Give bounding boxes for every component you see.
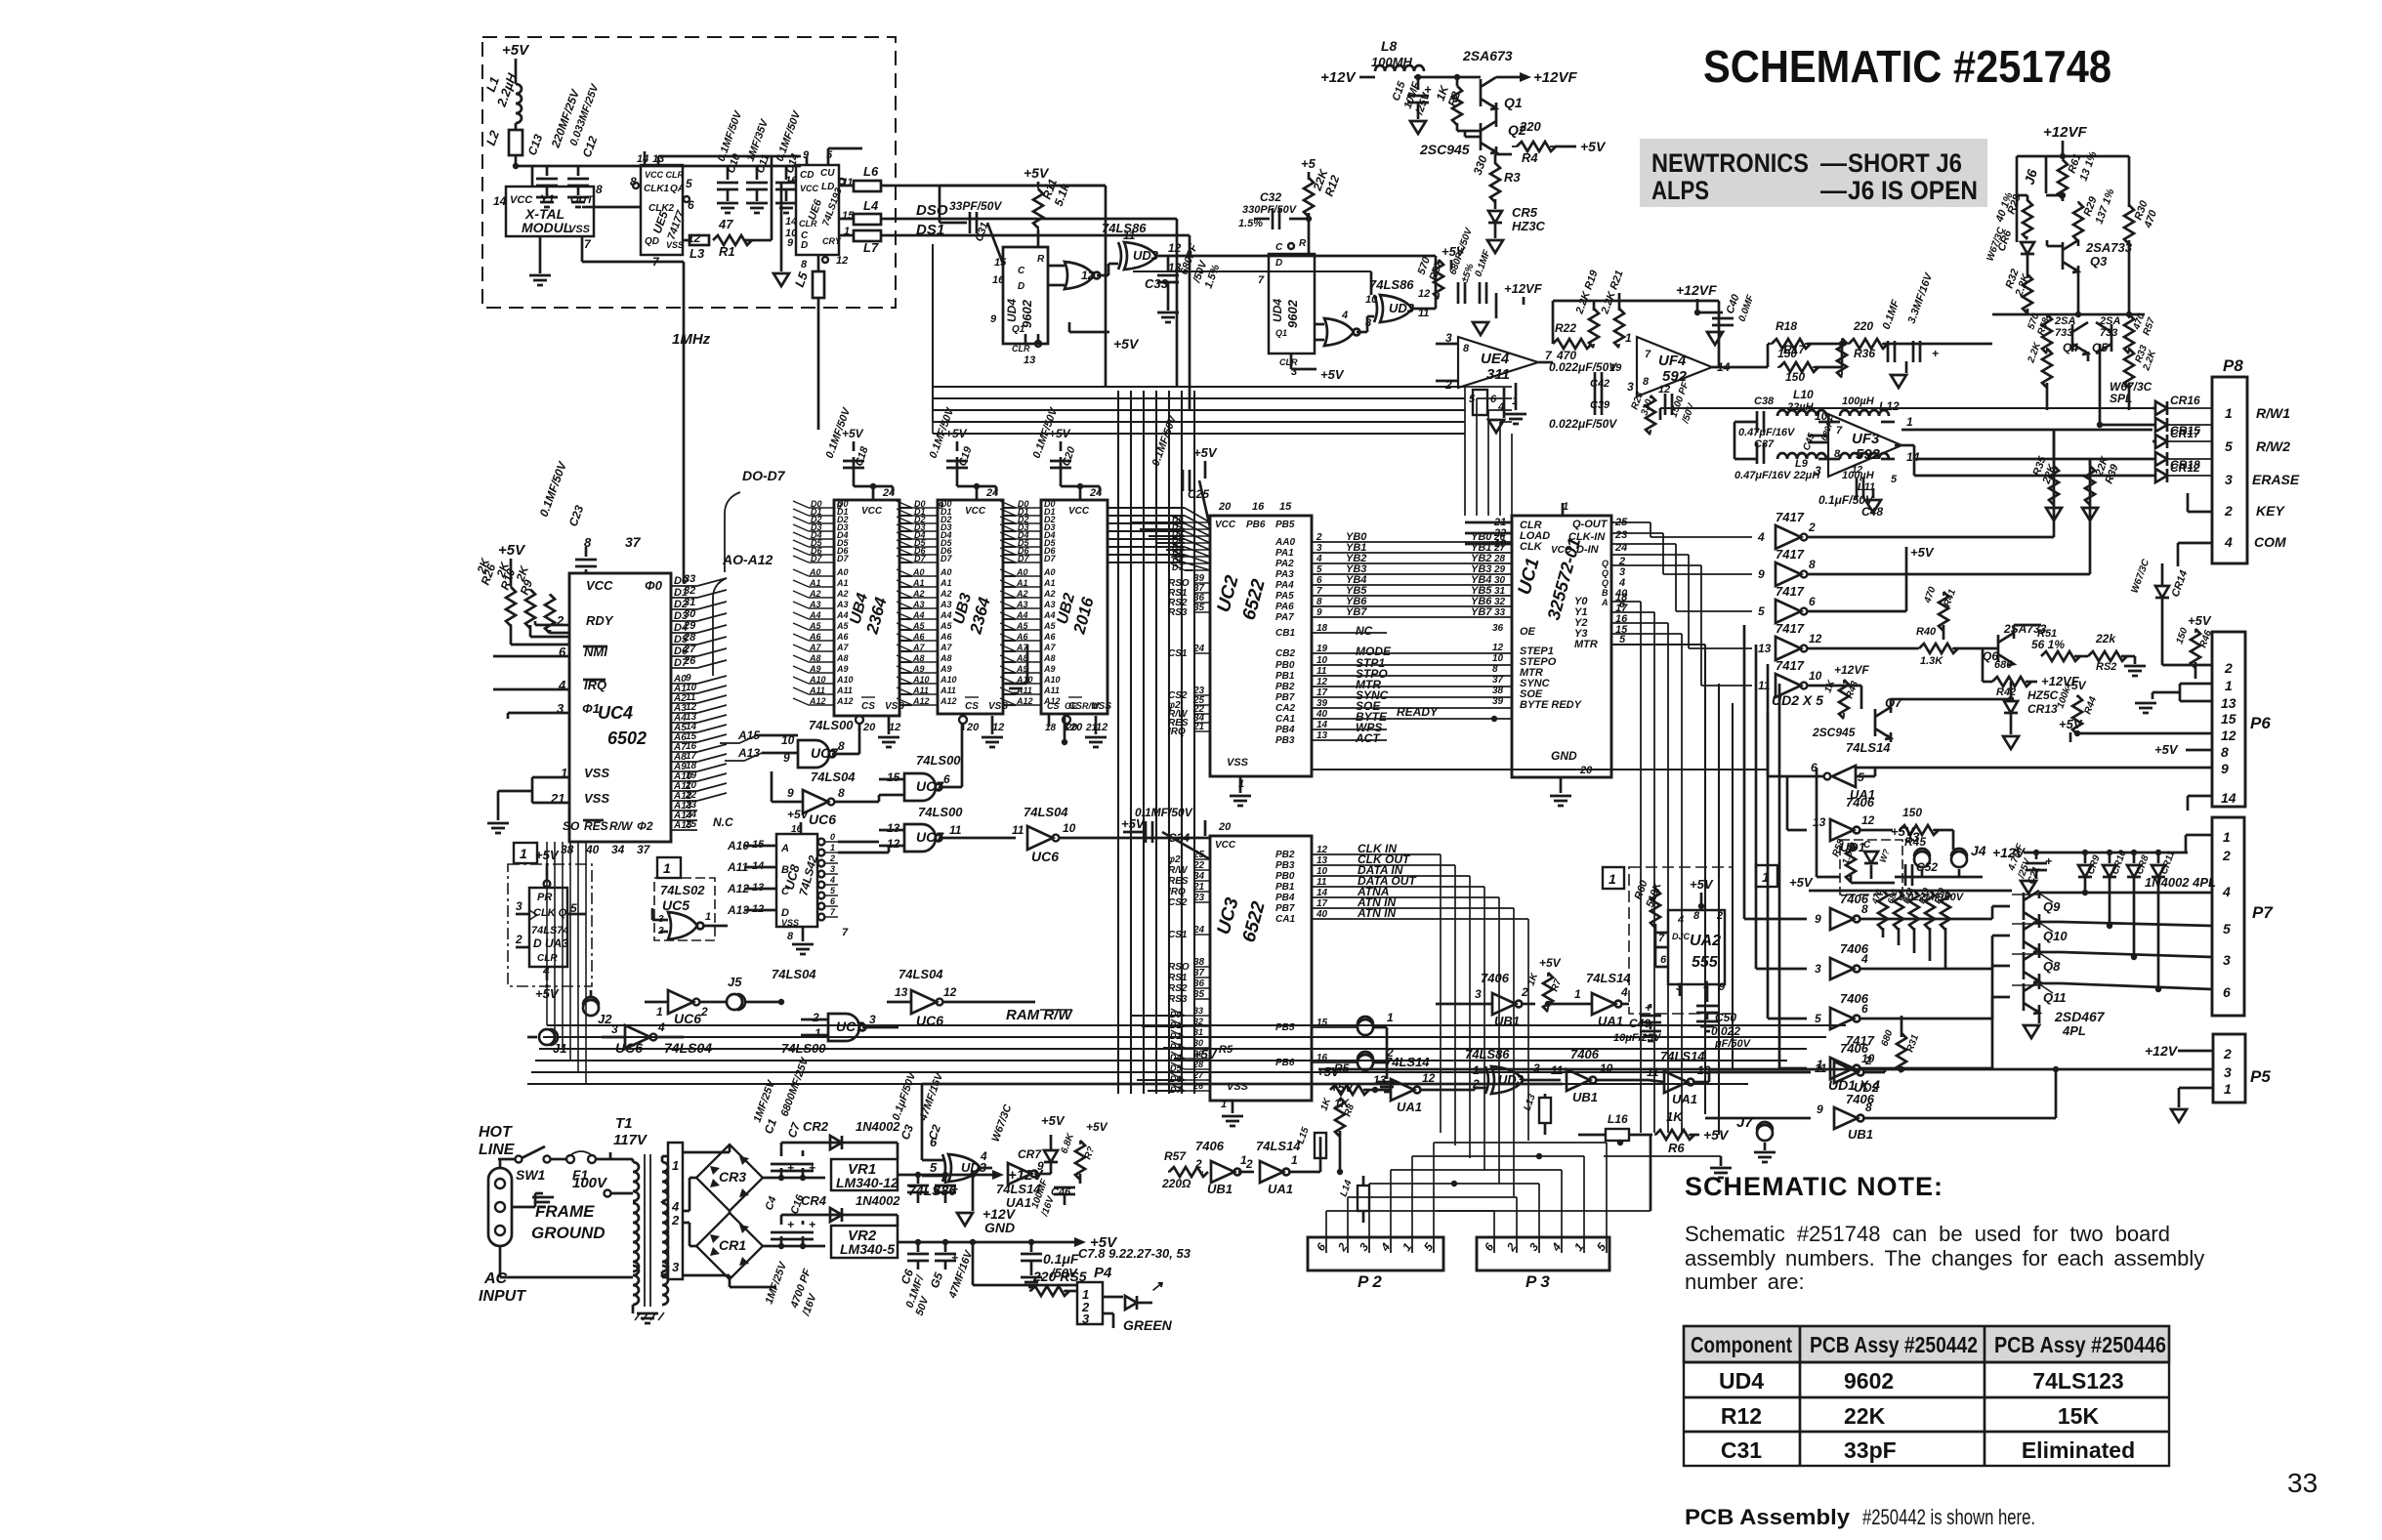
svg-text:7: 7	[1645, 349, 1651, 360]
svg-text:PA2: PA2	[1275, 559, 1294, 569]
svg-text:A0: A0	[1043, 567, 1056, 577]
svg-text:L10: L10	[1793, 388, 1814, 401]
svg-text:0.47μF/16V 22μH: 0.47μF/16V 22μH	[1734, 470, 1820, 481]
svg-text:+5V: +5V	[1789, 875, 1814, 890]
svg-text:+: +	[787, 1218, 794, 1231]
svg-text:R/W: R/W	[1168, 865, 1189, 876]
svg-text:8: 8	[1865, 1101, 1872, 1114]
svg-text:J5: J5	[728, 975, 742, 989]
svg-text:18: 18	[1045, 723, 1057, 733]
svg-text:74LS04: 74LS04	[664, 1040, 712, 1056]
svg-text:7: 7	[1258, 274, 1265, 286]
svg-text:N.C: N.C	[713, 815, 733, 829]
svg-text:2SD467: 2SD467	[2054, 1009, 2106, 1024]
svg-text:7417: 7417	[1776, 584, 1805, 599]
svg-text:10μF/25V: 10μF/25V	[1613, 1032, 1662, 1044]
svg-text:+12V: +12V	[1320, 69, 1357, 86]
svg-text:555: 555	[1692, 954, 1719, 971]
svg-text:C38: C38	[1754, 395, 1775, 407]
svg-text:9: 9	[1815, 912, 1821, 926]
svg-text:220 RS5: 220 RS5	[1032, 1269, 1087, 1284]
svg-text:22k: 22k	[2095, 632, 2116, 645]
svg-text:1.3K: 1.3K	[1920, 655, 1943, 667]
svg-text:A8: A8	[912, 653, 925, 663]
svg-text:2: 2	[2224, 660, 2233, 676]
svg-text:13: 13	[895, 985, 908, 999]
svg-text:Q8: Q8	[2043, 959, 2061, 974]
svg-text:AC: AC	[483, 1270, 508, 1287]
svg-text:B: B	[1602, 588, 1609, 598]
svg-text:A2: A2	[912, 589, 925, 599]
svg-text:P 2: P 2	[1358, 1272, 1382, 1291]
svg-text:A11: A11	[809, 686, 825, 695]
svg-text:2: 2	[1864, 1054, 1872, 1067]
svg-text:37: 37	[637, 843, 651, 856]
svg-text:R57: R57	[1164, 1149, 1187, 1163]
svg-text:74LS74: 74LS74	[531, 925, 569, 936]
svg-text:PB2: PB2	[1275, 682, 1295, 692]
svg-text:J7: J7	[1736, 1114, 1753, 1131]
svg-text:A7: A7	[912, 643, 925, 652]
svg-text:Q7: Q7	[1885, 695, 1902, 710]
svg-text:Q3: Q3	[2090, 254, 2108, 269]
svg-text:LM340-12: LM340-12	[836, 1175, 898, 1190]
svg-text:24: 24	[1192, 644, 1205, 654]
svg-text:1: 1	[1817, 1058, 1823, 1071]
svg-text:UD3: UD3	[1133, 248, 1159, 263]
svg-text:J2: J2	[598, 1012, 612, 1026]
svg-text:34: 34	[611, 843, 625, 856]
svg-text:Q5: Q5	[2092, 341, 2108, 354]
svg-text:D7: D7	[1044, 554, 1056, 563]
svg-text:C52: C52	[1916, 860, 1938, 874]
svg-text:7406: 7406	[1570, 1047, 1600, 1061]
svg-text:VSS: VSS	[584, 766, 609, 780]
svg-text:9: 9	[1037, 1159, 1044, 1173]
svg-text:8: 8	[1693, 910, 1700, 922]
svg-text:UF3: UF3	[1852, 431, 1880, 447]
svg-text:A4: A4	[940, 610, 952, 620]
svg-text:P4: P4	[1094, 1265, 1112, 1281]
svg-text:13: 13	[1758, 642, 1772, 655]
svg-text:12: 12	[1168, 241, 1182, 255]
svg-text:5: 5	[1891, 474, 1898, 485]
svg-text:21: 21	[1192, 882, 1205, 893]
svg-text:2: 2	[1808, 520, 1816, 534]
svg-text:9602: 9602	[1844, 1368, 1894, 1394]
svg-text:3: 3	[1815, 962, 1821, 976]
svg-text:29: 29	[1493, 564, 1506, 575]
svg-text:Q: Q	[1602, 559, 1609, 568]
svg-text:74LS04: 74LS04	[772, 967, 816, 981]
svg-text:1: 1	[2225, 678, 2233, 693]
svg-text:7417: 7417	[1776, 510, 1805, 524]
svg-text:4: 4	[1341, 310, 1348, 321]
svg-text:R1: R1	[719, 244, 735, 259]
svg-text:P7: P7	[2252, 903, 2274, 922]
svg-text:A6: A6	[809, 632, 821, 642]
svg-text:+: +	[951, 1251, 958, 1265]
svg-text:VCC: VCC	[510, 194, 533, 206]
svg-text:CS1: CS1	[1168, 648, 1188, 659]
svg-text:1: 1	[815, 1026, 821, 1040]
svg-text:10: 10	[1063, 821, 1076, 835]
svg-text:2: 2	[2222, 848, 2231, 863]
svg-text:SHORT J6: SHORT J6	[1848, 148, 1962, 178]
svg-text:+5V: +5V	[502, 42, 530, 59]
svg-text:A7: A7	[940, 643, 952, 652]
svg-text:13: 13	[1813, 815, 1826, 829]
svg-text:12: 12	[2221, 728, 2236, 743]
svg-text:33PF/50V: 33PF/50V	[949, 199, 1002, 213]
svg-text:UA1: UA1	[1397, 1100, 1422, 1114]
svg-text:R4: R4	[1522, 150, 1538, 165]
svg-text:SO: SO	[563, 819, 580, 833]
svg-text:4PL: 4PL	[2062, 1023, 2086, 1038]
svg-text:PB6: PB6	[1275, 1058, 1295, 1068]
svg-text:3: 3	[611, 1022, 618, 1036]
svg-text:A9: A9	[940, 664, 952, 674]
svg-text:A7: A7	[809, 643, 821, 652]
svg-text:A11: A11	[836, 686, 853, 695]
svg-text:+: +	[809, 1161, 815, 1175]
svg-text:1: 1	[663, 860, 671, 876]
svg-text:IRQ: IRQ	[1168, 727, 1186, 737]
svg-text:A9: A9	[912, 664, 925, 674]
svg-text:14: 14	[785, 216, 797, 228]
svg-text:7: 7	[1316, 586, 1322, 597]
svg-text:74LS02: 74LS02	[660, 883, 705, 897]
svg-text:100µH: 100µH	[1842, 395, 1875, 407]
svg-text:ATN IN: ATN IN	[1357, 906, 1396, 920]
svg-text:2SA673: 2SA673	[1462, 48, 1513, 63]
svg-text:220: 220	[1519, 119, 1541, 134]
svg-text:20: 20	[1218, 821, 1232, 833]
svg-text:VSS: VSS	[781, 918, 799, 928]
svg-text:4: 4	[980, 1149, 987, 1163]
svg-text:CA2: CA2	[1275, 703, 1295, 714]
svg-text:7417: 7417	[1776, 658, 1805, 673]
svg-text:30: 30	[684, 608, 696, 620]
svg-text:A7: A7	[836, 643, 849, 652]
svg-text:22: 22	[1192, 860, 1205, 871]
svg-text:R: R	[1037, 254, 1045, 265]
svg-text:—: —	[1820, 148, 1847, 178]
svg-text:74LS00: 74LS00	[809, 718, 854, 732]
svg-text:+12VF: +12VF	[2043, 124, 2087, 141]
svg-text:74LS86: 74LS86	[1369, 277, 1414, 292]
svg-text:A2: A2	[940, 589, 952, 599]
svg-text:2: 2	[1245, 1157, 1253, 1171]
svg-text:8: 8	[1492, 664, 1498, 675]
svg-text:D5: D5	[1170, 1063, 1182, 1073]
svg-text:12: 12	[1809, 632, 1822, 645]
svg-text:1: 1	[1291, 1153, 1298, 1167]
svg-text:J4: J4	[1971, 843, 1986, 858]
svg-text:Q: Q	[1602, 578, 1609, 588]
svg-text:40: 40	[585, 843, 600, 856]
svg-text:KEY: KEY	[2256, 503, 2285, 519]
svg-text:PA3: PA3	[1275, 569, 1294, 580]
svg-text:5: 5	[930, 1160, 938, 1175]
svg-text:14: 14	[2221, 790, 2236, 806]
svg-text:A8: A8	[1016, 653, 1028, 663]
svg-text:4: 4	[1620, 985, 1628, 999]
svg-text:P 3: P 3	[1525, 1272, 1550, 1291]
svg-text:φ2: φ2	[1168, 854, 1181, 865]
svg-text:2: 2	[700, 1005, 708, 1019]
svg-text:12: 12	[1861, 813, 1875, 827]
svg-text:31: 31	[684, 597, 695, 608]
svg-text:C: C	[1018, 266, 1025, 276]
svg-text:3: 3	[2224, 1064, 2232, 1080]
svg-text:9: 9	[1719, 981, 1726, 993]
svg-text:CA1: CA1	[1275, 914, 1295, 925]
svg-text:19: 19	[1609, 362, 1622, 374]
svg-text:C50: C50	[1715, 1011, 1736, 1024]
svg-text:P8: P8	[2223, 356, 2243, 375]
svg-text:A1: A1	[912, 578, 925, 588]
svg-text:UB1: UB1	[1494, 1014, 1520, 1028]
svg-text:74LS00: 74LS00	[781, 1041, 826, 1056]
svg-text:A12: A12	[940, 696, 957, 706]
svg-text:D: D	[1018, 281, 1024, 292]
svg-text:3: 3	[672, 1260, 680, 1274]
svg-text:37: 37	[1492, 675, 1504, 686]
svg-text:32: 32	[1193, 1017, 1203, 1026]
svg-text:UD4: UD4	[1719, 1368, 1764, 1394]
svg-text:VCC: VCC	[861, 506, 883, 517]
svg-text:9: 9	[1817, 1103, 1823, 1116]
svg-text:Q9: Q9	[2043, 899, 2061, 914]
svg-text:UB1: UB1	[1848, 1127, 1873, 1142]
svg-text:9602: 9602	[1285, 299, 1300, 328]
svg-text:VCC: VCC	[1068, 506, 1090, 517]
svg-text:A4: A4	[912, 610, 925, 620]
svg-text:20: 20	[966, 722, 980, 733]
svg-text:2: 2	[2224, 503, 2233, 519]
svg-text:A10: A10	[940, 675, 957, 685]
svg-text:15: 15	[994, 257, 1007, 269]
svg-text:A3: A3	[1016, 600, 1028, 609]
svg-text:AO-A12: AO-A12	[722, 552, 773, 567]
svg-text:37: 37	[625, 534, 642, 550]
svg-text:RES: RES	[1168, 876, 1189, 887]
svg-text:GND: GND	[1551, 749, 1577, 763]
svg-text:PA6: PA6	[1275, 602, 1294, 612]
svg-text:C7.8 9.22.27-30, 53: C7.8 9.22.27-30, 53	[1078, 1246, 1191, 1261]
svg-text:1: 1	[2225, 405, 2233, 421]
svg-text:3: 3	[1533, 1061, 1540, 1075]
svg-text:VCC: VCC	[586, 578, 613, 593]
svg-text:DO-D7: DO-D7	[742, 468, 786, 483]
svg-text:+5V: +5V	[2065, 679, 2087, 692]
svg-text:MODUL: MODUL	[522, 220, 571, 235]
svg-text:D7: D7	[940, 554, 952, 563]
svg-text:A4: A4	[836, 610, 849, 620]
svg-text:+5V: +5V	[1086, 1120, 1108, 1134]
svg-text:11: 11	[1647, 1065, 1659, 1079]
svg-text:D2: D2	[1170, 1031, 1182, 1041]
svg-text:GND: GND	[984, 1220, 1015, 1235]
svg-text:J3: J3	[1904, 829, 1920, 845]
svg-text:CLR: CLR	[537, 953, 558, 964]
svg-text:2: 2	[1716, 910, 1723, 922]
svg-text:8: 8	[1834, 448, 1841, 460]
svg-text:0: 0	[830, 832, 835, 842]
svg-text:PCB Assy #250446: PCB Assy #250446	[1994, 1332, 2166, 1357]
svg-text:SCHEMATIC #251748: SCHEMATIC #251748	[1703, 41, 2111, 92]
svg-text:1N4002: 1N4002	[856, 1119, 900, 1134]
svg-text:VCC: VCC	[1551, 545, 1572, 556]
svg-text:A0: A0	[912, 567, 925, 577]
svg-text:37: 37	[1193, 968, 1205, 978]
svg-text:PB1: PB1	[1275, 671, 1295, 682]
svg-text:+5V: +5V	[787, 808, 810, 821]
svg-text:VCC: VCC	[800, 184, 819, 193]
svg-text:74LS14: 74LS14	[1846, 740, 1891, 755]
svg-text:+12VF: +12VF	[1504, 281, 1543, 296]
svg-text:2: 2	[812, 1011, 819, 1024]
svg-text:4: 4	[829, 875, 835, 885]
svg-text:13: 13	[1024, 354, 1035, 366]
svg-text:A: A	[780, 843, 789, 854]
svg-text:27: 27	[683, 644, 696, 655]
svg-text:13: 13	[2221, 695, 2236, 711]
svg-text:A11: A11	[912, 686, 929, 695]
svg-text:74LS14: 74LS14	[1385, 1055, 1430, 1069]
svg-text:+5V: +5V	[1193, 445, 1218, 460]
svg-text:R/W1: R/W1	[2256, 405, 2290, 421]
svg-text:3: 3	[830, 864, 835, 874]
svg-text:33: 33	[1193, 1006, 1203, 1016]
svg-text:UA1: UA1	[1006, 1195, 1031, 1210]
svg-text:4: 4	[671, 1199, 680, 1214]
svg-text:A12: A12	[809, 696, 826, 706]
svg-text:UA1: UA1	[1598, 1014, 1623, 1028]
svg-text:A2: A2	[809, 589, 821, 599]
svg-text:Schematic #251748 can be used: Schematic #251748 can be used for two bo…	[1685, 1222, 2170, 1246]
svg-text:100V: 100V	[572, 1175, 608, 1191]
svg-text:1MHz: 1MHz	[672, 331, 711, 348]
svg-text:PCB Assembly: PCB Assembly	[1685, 1505, 1851, 1529]
svg-text:+5V: +5V	[1320, 367, 1345, 382]
svg-text:4: 4	[2224, 534, 2233, 550]
svg-text:UD3: UD3	[1389, 301, 1415, 315]
svg-text:A0: A0	[836, 567, 849, 577]
svg-text:QD: QD	[645, 236, 659, 247]
svg-text:C31: C31	[1721, 1437, 1762, 1463]
svg-text:+5V: +5V	[1193, 1047, 1218, 1061]
svg-text:26: 26	[1192, 1081, 1204, 1091]
svg-text:28: 28	[683, 632, 696, 644]
svg-text:A7: A7	[1043, 643, 1056, 652]
svg-text:A11: A11	[1043, 686, 1060, 695]
svg-text:21: 21	[1192, 722, 1205, 732]
svg-text:14: 14	[493, 194, 507, 208]
svg-text:CR2: CR2	[803, 1119, 829, 1134]
svg-text:12: 12	[1418, 288, 1430, 300]
svg-text:UB1: UB1	[1572, 1090, 1598, 1104]
svg-text:6: 6	[1809, 595, 1816, 608]
svg-text:A9: A9	[809, 664, 821, 674]
svg-text:33: 33	[1494, 607, 1506, 618]
svg-text:A1: A1	[809, 578, 821, 588]
svg-text:A1: A1	[940, 578, 952, 588]
svg-text:UC4: UC4	[598, 703, 633, 723]
svg-text:24: 24	[1192, 925, 1205, 936]
svg-text:C32: C32	[1260, 190, 1281, 204]
svg-text:2: 2	[671, 1213, 680, 1228]
svg-text:A12: A12	[912, 696, 930, 706]
svg-text:12: 12	[1852, 465, 1863, 476]
svg-text:+5V: +5V	[1580, 139, 1607, 154]
svg-text:VSS: VSS	[568, 224, 591, 235]
svg-text:+5V: +5V	[2188, 613, 2212, 628]
svg-text:A0: A0	[1016, 567, 1028, 577]
svg-text:INPUT: INPUT	[479, 1288, 526, 1305]
svg-text:CS1: CS1	[1168, 930, 1188, 940]
svg-text:C42: C42	[1590, 378, 1609, 390]
svg-text:Q: Q	[1602, 568, 1609, 578]
svg-text:C: C	[1275, 242, 1283, 253]
svg-text:25: 25	[1192, 850, 1205, 860]
svg-text:Q4: Q4	[2063, 341, 2078, 354]
svg-text:+: +	[1932, 347, 1939, 360]
svg-text:8: 8	[838, 739, 845, 753]
svg-text:5: 5	[2223, 921, 2231, 936]
svg-text:9: 9	[938, 501, 943, 512]
svg-text:PB3: PB3	[1275, 735, 1295, 746]
svg-text:+12V: +12V	[2145, 1043, 2179, 1059]
svg-text:0.47μF/16V: 0.47μF/16V	[1738, 427, 1796, 438]
svg-text:PR: PR	[537, 892, 552, 903]
svg-text:A0: A0	[940, 567, 952, 577]
svg-text:CLK Q: CLK Q	[533, 907, 567, 919]
svg-text:HZ3C: HZ3C	[1512, 219, 1546, 233]
svg-text:A2: A2	[836, 589, 849, 599]
svg-text:20: 20	[1218, 501, 1232, 513]
svg-text:12: 12	[1081, 269, 1095, 282]
svg-text:4: 4	[1677, 914, 1684, 926]
svg-text:L16: L16	[1608, 1112, 1628, 1126]
svg-text:OE: OE	[1065, 701, 1078, 711]
svg-text:UF4: UF4	[1658, 353, 1687, 369]
svg-text:3: 3	[2225, 472, 2233, 487]
svg-text:0.1μF: 0.1μF	[1043, 1251, 1079, 1267]
svg-text:D7: D7	[811, 554, 822, 563]
svg-text:1: 1	[656, 1005, 663, 1019]
svg-text:R6: R6	[1668, 1141, 1685, 1155]
svg-text:1: 1	[830, 843, 835, 853]
svg-text:12: 12	[943, 985, 957, 999]
svg-text:Q1: Q1	[1504, 95, 1523, 110]
svg-text:OUT: OUT	[570, 194, 595, 206]
svg-text:34: 34	[1193, 871, 1205, 882]
svg-text:R42: R42	[1996, 687, 2016, 698]
svg-text:UA1: UA1	[1672, 1092, 1697, 1106]
svg-text:74LS00: 74LS00	[916, 753, 961, 768]
svg-text:L3: L3	[690, 246, 705, 261]
svg-text:A5: A5	[912, 621, 925, 631]
svg-text:A0: A0	[809, 567, 821, 577]
svg-text:CR3: CR3	[719, 1169, 746, 1185]
svg-text:9: 9	[990, 313, 997, 325]
svg-text:UC7: UC7	[836, 1019, 864, 1034]
svg-text:74LS14: 74LS14	[1660, 1049, 1705, 1063]
svg-text:Φ2: Φ2	[637, 819, 653, 833]
svg-text:L12: L12	[1879, 399, 1900, 413]
